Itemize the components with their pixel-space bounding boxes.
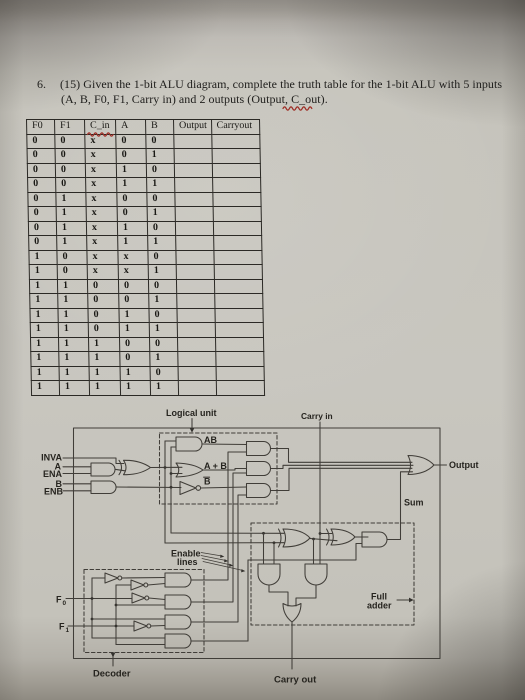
XOR gate FA-1 bbox=[279, 529, 311, 547]
OR gate A+B (logical unit) bbox=[176, 463, 203, 477]
wire ENB input bbox=[63, 490, 91, 492]
overline of B-bar label bbox=[204, 476, 210, 478]
arrow from Full adder label to box bbox=[397, 599, 409, 601]
wire E3 out to bundle bbox=[271, 468, 413, 490]
decoder AND gate D4 bbox=[165, 634, 191, 648]
wire I1 out to AND1 bbox=[122, 577, 165, 580]
svg-text:Sum: Sum bbox=[404, 498, 424, 508]
wire a to AB gate upper bbox=[165, 440, 176, 442]
node b riser T at A+B bbox=[170, 472, 173, 475]
node rail-F0 T to AND3 bbox=[91, 618, 94, 621]
problem text line 1 bbox=[60, 77, 502, 92]
wire b to A+B lower bbox=[171, 473, 182, 475]
inverter I1 (F0) bbox=[105, 573, 118, 583]
wire I4 out to AND3 bbox=[151, 625, 165, 628]
XOR gate FA-2 bbox=[327, 529, 356, 545]
wire B-bar out to enable gate bbox=[201, 487, 247, 488]
wire F0 input bbox=[66, 598, 132, 600]
wire enable-4 from D4 bbox=[191, 640, 248, 642]
wire enable-3 from D3 to E3 bbox=[191, 495, 247, 622]
wire left AND out to carry OR bbox=[269, 586, 288, 607]
arrow from Decoder label to box bbox=[112, 656, 114, 666]
wire F1 to inverter2 bbox=[116, 584, 131, 586]
svg-text:0: 0 bbox=[63, 600, 67, 607]
carry AND gate left (a·b) bbox=[258, 564, 280, 585]
wire XOR1 branch down to carry AND bbox=[313, 539, 315, 564]
svg-text:F: F bbox=[56, 595, 62, 605]
wire AND-A to XOR bbox=[115, 469, 125, 471]
inverter I2 (F1) bbox=[131, 580, 144, 590]
wire sum (XOR2 out) to E4 bbox=[355, 536, 368, 538]
svg-text:Carry in: Carry in bbox=[301, 411, 333, 421]
enable AND gate E4 (sum) bbox=[362, 532, 387, 547]
wire F1 to decoder AND2 bbox=[116, 604, 165, 606]
wire a feed to XOR1 of full adder bbox=[165, 542, 284, 544]
AND gate B·ENB bbox=[91, 481, 116, 494]
inverter B-bar (logical unit) bbox=[180, 482, 196, 495]
red squiggle under C_in bbox=[88, 133, 114, 136]
enable AND gate E1 (AB) bbox=[247, 442, 271, 456]
wire b branch down bbox=[263, 533, 265, 564]
svg-text:ENB: ENB bbox=[44, 487, 64, 497]
svg-text:lines: lines bbox=[177, 557, 198, 567]
node a branch to carry AND bbox=[273, 541, 276, 544]
decoder AND gate D1 bbox=[165, 573, 191, 587]
node b junction bbox=[170, 486, 173, 489]
enable AND gate E3 (B-bar) bbox=[247, 484, 271, 498]
enable AND gate E2 (A+B) bbox=[247, 462, 271, 476]
enable-lines arrow 2 bbox=[201, 556, 226, 561]
wire a-line bbox=[150, 466, 182, 468]
decoder rail F0 bbox=[91, 578, 93, 638]
outer box bbox=[74, 428, 441, 659]
wire carry-in to XOR2 upper bbox=[320, 533, 332, 535]
truth table bbox=[26, 119, 265, 396]
svg-text:Logical unit: Logical unit bbox=[166, 408, 217, 418]
node a junction bbox=[164, 466, 167, 469]
wire b to AB gate lower bbox=[171, 446, 176, 448]
wire I2 out to AND1 bbox=[148, 584, 165, 586]
wire A+B out to E2 bbox=[203, 469, 247, 471]
svg-text:F: F bbox=[59, 622, 65, 632]
carry AND gate right (cin·(a xor b)) bbox=[305, 564, 327, 585]
svg-text:ENA: ENA bbox=[43, 469, 63, 479]
wire ENA input bbox=[63, 473, 91, 475]
svg-text:Carry out: Carry out bbox=[274, 675, 317, 686]
wire riser b bbox=[170, 447, 172, 533]
wire output bbox=[434, 464, 447, 466]
wire F0 to inverter1 bbox=[92, 577, 105, 579]
wire right AND out to carry OR bbox=[296, 586, 316, 607]
wire B input bbox=[63, 483, 91, 485]
wire enable-2 from D2 to E2 bbox=[191, 473, 247, 602]
wire F0 to decoder AND3 bbox=[92, 618, 165, 620]
wire b feed to XOR1 upper bbox=[171, 532, 284, 534]
wire enable-4 into E4 bbox=[248, 544, 362, 561]
svg-text:B: B bbox=[204, 477, 211, 487]
wire F0 to decoder AND4 bbox=[92, 637, 165, 639]
AND gate AB (logical unit) bbox=[176, 437, 202, 451]
wire b-line bbox=[116, 486, 181, 489]
node XOR1-out branch bbox=[312, 538, 315, 541]
problem text line 2 bbox=[61, 92, 328, 107]
wire A input bbox=[63, 466, 91, 468]
inverter I3 (F0) bbox=[132, 593, 145, 603]
wire E2 out to bundle bbox=[271, 465, 414, 468]
wire I3 out to AND2 bbox=[149, 598, 165, 600]
arrow from Logical unit label to box bbox=[191, 419, 193, 430]
XOR gate (A invert) bbox=[119, 460, 151, 474]
wire XOR1 out to XOR2 bbox=[310, 539, 337, 541]
wire E4 out up to output OR bbox=[388, 472, 413, 540]
wire carry-in vertical bbox=[319, 422, 321, 564]
svg-text:adder: adder bbox=[367, 601, 392, 611]
carry OR gate bbox=[283, 604, 301, 623]
wire AB out to E1 bbox=[202, 443, 247, 446]
enable-lines arrow 4 bbox=[203, 562, 243, 571]
decoder rail F1 bbox=[115, 585, 117, 645]
wire carry out bbox=[291, 622, 293, 669]
node rail-F0 tap bbox=[91, 597, 94, 600]
wire enable-1 from D1 to E1 bbox=[191, 452, 247, 580]
wire a branch down bbox=[273, 543, 275, 564]
svg-text:Output: Output bbox=[449, 460, 479, 470]
full adder dashed box bbox=[251, 523, 414, 625]
svg-text:Decoder: Decoder bbox=[93, 668, 131, 679]
node b branch to carry AND bbox=[262, 532, 265, 535]
svg-text:1: 1 bbox=[66, 627, 70, 634]
decoder AND gate D2 bbox=[165, 595, 191, 609]
wire riser a (to AB and down to full adder) bbox=[164, 441, 166, 543]
svg-text:AB: AB bbox=[204, 435, 217, 445]
node rail-F1 tap bbox=[115, 625, 118, 628]
AND gate A·ENA bbox=[91, 463, 115, 476]
problem number bbox=[37, 77, 46, 92]
wire enable-4 vertical from decoder bbox=[247, 560, 249, 641]
wire F1 to decoder AND4 bbox=[116, 644, 165, 646]
wire F1 input bbox=[68, 625, 134, 627]
enable-lines arrow 1 bbox=[201, 553, 222, 557]
decoder dashed box bbox=[84, 570, 204, 653]
enable-lines arrow 3 bbox=[202, 559, 231, 566]
decoder AND gate D3 bbox=[165, 615, 191, 629]
node rail-F1 T to AND2 bbox=[115, 604, 118, 607]
inverter I4 (F1) bbox=[134, 621, 147, 631]
wire E1 out to bundle bbox=[271, 449, 413, 463]
logical unit dashed box bbox=[160, 433, 278, 504]
wire INVA input bbox=[63, 458, 124, 464]
output OR gate bbox=[408, 456, 434, 475]
node carry-in to XOR2 bbox=[319, 532, 322, 535]
